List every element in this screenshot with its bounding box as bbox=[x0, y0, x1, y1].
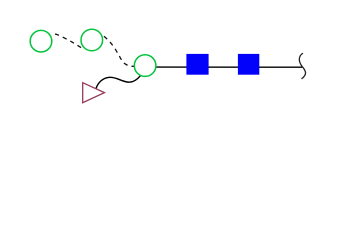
wire backbone line bbox=[157, 66, 303, 68]
node Fuc triangle bbox=[83, 83, 105, 103]
reducing-end squiggle bbox=[299, 53, 305, 79]
node Man circle 2 bbox=[81, 29, 103, 51]
node GlcNAc square 2 bbox=[238, 54, 259, 75]
wire dashed link Man-Man bbox=[55, 34, 82, 48]
node Man circle 3 bbox=[134, 55, 156, 77]
wire dashed link Man-Man 2 bbox=[104, 36, 134, 66]
node Man circle 1 bbox=[30, 30, 52, 52]
node GlcNAc square 1 bbox=[186, 54, 208, 75]
wire wavy Fuc link bbox=[96, 76, 140, 89]
